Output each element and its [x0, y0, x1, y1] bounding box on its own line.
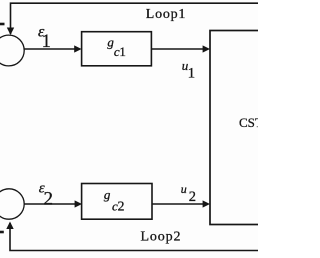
- svg-text:1: 1: [119, 44, 126, 59]
- svg-text:2: 2: [44, 189, 54, 210]
- svg-text:CSTR: CSTR: [239, 115, 258, 130]
- svg-text:Loop2: Loop2: [141, 229, 182, 244]
- svg-text:1: 1: [42, 31, 52, 52]
- svg-text:g: g: [104, 187, 111, 202]
- svg-text:1: 1: [188, 66, 196, 82]
- svg-text:2: 2: [189, 189, 196, 205]
- svg-text:u: u: [181, 182, 187, 196]
- svg-text:Loop1: Loop1: [146, 7, 186, 22]
- svg-text:2: 2: [118, 199, 125, 214]
